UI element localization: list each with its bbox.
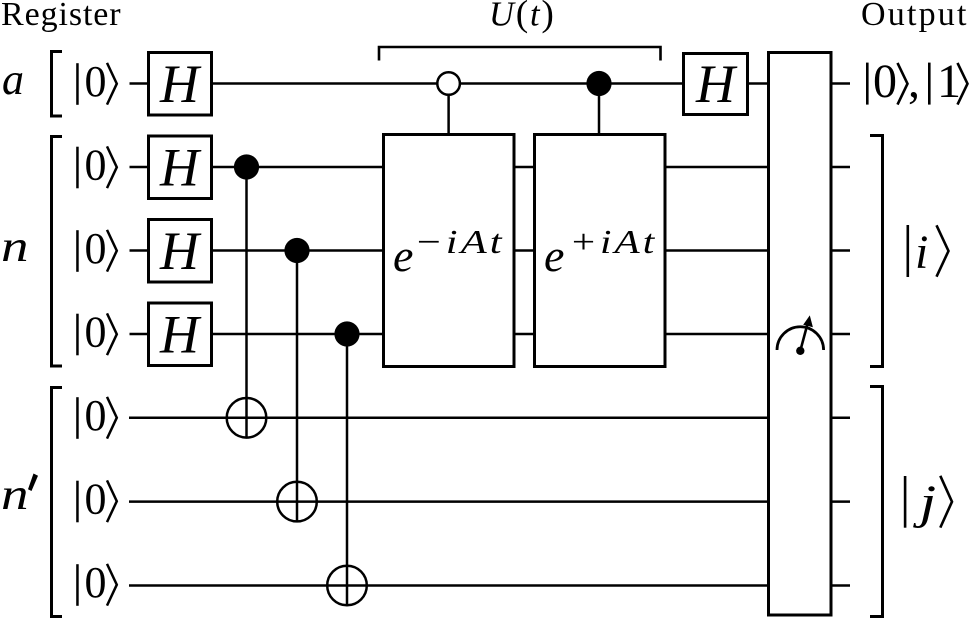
- svg-text:0: 0: [85, 224, 107, 273]
- wire 3 segment box to meter: [664, 249, 769, 252]
- ket |0> wire 4: [76, 308, 117, 357]
- wire 3 segment between boxes: [514, 249, 534, 252]
- controlled-U filled control vertical wire: [598, 84, 601, 135]
- wire 5: [129, 417, 769, 420]
- svg-text:−iAt: −iAt: [414, 224, 505, 261]
- meter arc: [777, 327, 824, 350]
- register bracket n: [52, 137, 63, 367]
- ket |0> wire 2: [76, 141, 117, 190]
- svg-text:n: n: [1, 470, 29, 519]
- wire 2 segment H to box: [212, 166, 383, 169]
- CNOT 2 vertical wire: [296, 251, 299, 522]
- gate box e^+iAt: [535, 135, 666, 367]
- H gate wire 3: [149, 220, 212, 283]
- meter needle: [800, 322, 808, 351]
- output tick wire 3: [831, 249, 850, 252]
- meter needle arrowhead: [803, 315, 813, 327]
- open control circle: [437, 72, 460, 95]
- output tick wire 2: [831, 166, 850, 169]
- svg-text:0: 0: [85, 391, 107, 440]
- CNOT 2 target: [277, 482, 317, 522]
- measurement box: [769, 53, 832, 616]
- CNOT 1 vertical wire: [245, 167, 248, 438]
- svg-text:Output: Output: [861, 0, 969, 33]
- svg-text:,: ,: [908, 55, 920, 108]
- svg-text:U(t): U(t): [489, 0, 556, 35]
- wire 4 segment ket to H: [130, 333, 149, 336]
- wire 2 segment between boxes: [514, 166, 534, 169]
- CNOT 1 control dot: [234, 154, 259, 179]
- ket |0> wire 3: [76, 224, 117, 273]
- output tick wire 7: [831, 584, 850, 587]
- output bracket i register: [870, 136, 883, 367]
- svg-text:H: H: [159, 54, 202, 114]
- wire 3 segment ket to H: [130, 249, 149, 252]
- svg-text:0: 0: [873, 55, 897, 108]
- wire 2 segment box to meter: [664, 166, 769, 169]
- CNOT 3 vertical wire: [346, 334, 349, 605]
- wire 4 segment H to box: [212, 333, 383, 336]
- bracket over U(t): [379, 47, 661, 61]
- wire 6: [129, 500, 769, 503]
- H gate wire 1 right: [684, 54, 748, 115]
- controlled-U open control vertical wire: [447, 84, 450, 135]
- svg-text:0: 0: [85, 475, 107, 524]
- CNOT 2 control dot: [284, 238, 309, 263]
- ket |0> wire 5: [76, 391, 117, 440]
- output tick wire 6: [831, 500, 850, 503]
- svg-text:0: 0: [85, 57, 107, 106]
- H gate wire 2: [149, 136, 212, 199]
- CNOT 1 target: [227, 398, 267, 438]
- svg-text:i: i: [915, 226, 928, 279]
- svg-text:H: H: [695, 54, 738, 114]
- wire 4 segment box to meter: [664, 333, 769, 336]
- ket |0> wire 1: [76, 57, 117, 106]
- output label |i>: [907, 225, 949, 279]
- ket |0> wire 6: [76, 475, 117, 524]
- wire 1 segment ket to H: [130, 82, 149, 85]
- output tick wire 1: [831, 82, 850, 85]
- wire 4 segment between boxes: [514, 333, 534, 336]
- H gate wire 1: [149, 53, 212, 116]
- svg-text:H: H: [159, 138, 202, 198]
- svg-text:+iAt: +iAt: [569, 223, 657, 261]
- svg-text:0: 0: [85, 141, 107, 190]
- svg-text:Register: Register: [1, 0, 122, 33]
- register bracket n': [52, 388, 63, 617]
- svg-text:0: 0: [85, 558, 107, 607]
- wire 3 segment H to box: [212, 249, 383, 252]
- svg-text:e: e: [393, 230, 413, 281]
- CNOT 3 target: [327, 566, 367, 606]
- output tick wire 4: [831, 333, 850, 336]
- wire 2 segment ket to H: [130, 166, 149, 169]
- output label |j>: [904, 476, 952, 529]
- meter pivot dot: [796, 347, 804, 355]
- wire 1 segment H to H: [212, 82, 683, 85]
- wire 7: [129, 584, 769, 587]
- output tick wire 5: [831, 417, 850, 420]
- filled control dot: [586, 71, 611, 96]
- svg-text:0: 0: [85, 308, 107, 357]
- output label |0>,|1>: [866, 55, 968, 108]
- CNOT 3 control dot: [334, 321, 359, 346]
- ket |0> wire 7: [76, 558, 117, 607]
- svg-text:a: a: [2, 55, 24, 104]
- svg-text:n: n: [1, 222, 29, 271]
- svg-text:e: e: [544, 230, 564, 281]
- gate box e^-iAt: [384, 135, 515, 367]
- register bracket a: [52, 52, 63, 117]
- output bracket j register: [870, 387, 883, 617]
- svg-text:H: H: [159, 305, 202, 365]
- H gate wire 4: [149, 303, 212, 366]
- svg-text:H: H: [159, 221, 202, 281]
- wire 1 segment H to meter: [748, 82, 769, 85]
